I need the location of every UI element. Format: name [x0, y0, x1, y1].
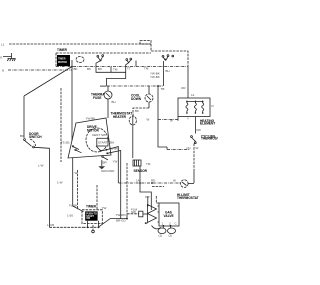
svg-text:TM: TM [113, 68, 118, 72]
svg-text:GROUND: GROUND [101, 169, 115, 173]
hi-limit thermostat TH2 [181, 180, 189, 188]
wire sensor drop [139, 166, 141, 183]
wire stub at S2 [135, 61, 137, 67]
wire cycling dash-dot [167, 149, 190, 151]
wire dashed to valve corner [156, 196, 159, 203]
wire heater to cycling thermostat [194, 117, 196, 134]
wire L1 step into timer [151, 44, 188, 65]
svg-text:BR-GD: BR-GD [116, 219, 127, 223]
wire BK diagonal to door switch [24, 67, 72, 97]
svg-text:Y: Y [187, 117, 189, 121]
ignitor coil triangle lower [148, 214, 157, 223]
timer switch S2 [126, 59, 128, 61]
terminal under start box [92, 225, 94, 230]
wire cool down dashed link [133, 108, 149, 116]
wire timer enclosure bottom bus [56, 66, 188, 68]
node BK [71, 66, 73, 68]
svg-text:THERMOSTAT: THERMOSTAT [201, 137, 218, 141]
cycling thermostat S8 [191, 136, 193, 138]
node TB junction [157, 85, 159, 87]
node bus junction B [151, 182, 153, 184]
gas valve bottom terminals [162, 225, 164, 227]
push to start switch S6 [85, 211, 97, 220]
wire ignitor feed [140, 183, 151, 210]
motor centrifugal circle [86, 128, 108, 152]
timer switch S3 [162, 55, 164, 57]
svg-text:BU: BU [166, 69, 170, 73]
svg-text:CENT SW: CENT SW [92, 133, 106, 137]
svg-text:TB: TB [161, 87, 165, 91]
motor internal junctions [96, 146, 107, 151]
connector plug P1 on L1 [140, 41, 151, 45]
wire S1 staircase [96, 61, 126, 73]
ignitor coil triangle upper [148, 205, 157, 214]
svg-text:BK: BK [135, 109, 139, 113]
svg-text:START: START [98, 141, 108, 145]
wire stub left of fuse branch [100, 85, 106, 87]
wire lower dash-dot bus [119, 182, 181, 184]
svg-text:ELEMENT: ELEMENT [200, 121, 215, 125]
wire S2 drop loop [106, 63, 128, 87]
push to start terminals [88, 221, 99, 228]
svg-text:HEATER: HEATER [113, 115, 127, 119]
wire cycling drop solid [193, 170, 195, 183]
wire flame switch to ignitor [143, 213, 148, 215]
gas valve left terminals [158, 206, 160, 222]
svg-text:W: W [170, 118, 173, 122]
svg-text:5M: 5M [110, 141, 115, 145]
wire bottom dashed run [49, 226, 83, 228]
svg-text:VALVE: VALVE [164, 214, 174, 218]
svg-text:1A: 1A [136, 179, 140, 183]
svg-text:SENSOR: SENSOR [134, 169, 148, 173]
svg-text:BK: BK [98, 67, 102, 71]
wire heater feed drop [187, 65, 189, 98]
node ignitor corner [126, 218, 128, 220]
wire timer motor drop [71, 60, 73, 141]
svg-text:W: W [173, 179, 176, 183]
heater box [178, 98, 210, 117]
svg-text:L2: L2 [191, 93, 195, 97]
wire dashed drop to start box [96, 185, 98, 210]
motor switch S4 [103, 157, 108, 160]
wire through thermostat heater [132, 116, 134, 158]
wire dashed ignitor column [126, 163, 128, 214]
svg-text:YW: YW [102, 206, 107, 210]
wire mid dash-dot bus [107, 85, 164, 87]
flame switch S9 [139, 211, 143, 217]
wire dashed bus stub [152, 186, 164, 188]
svg-text:FL-BK: FL-BK [69, 204, 78, 208]
heater terminals [186, 101, 188, 103]
door switch S5 [24, 139, 26, 141]
timer motor M1 [57, 55, 70, 66]
wire motor right drop A [107, 147, 119, 184]
svg-text:BK: BK [20, 134, 24, 138]
wire N neutral bus [8, 69, 72, 71]
gas valve box [159, 203, 179, 226]
svg-text:MOTOR: MOTOR [58, 61, 67, 64]
thermal fuse F1 [104, 91, 112, 99]
wire cycling branch dashed link [166, 147, 168, 150]
cool down thermostat TH1 [145, 94, 153, 102]
console dashed boundary [60, 88, 62, 162]
motor centrifugal contacts [73, 147, 82, 153]
svg-text:TT: TT [127, 67, 131, 71]
node ignitor bottom [145, 222, 147, 224]
wire motor right drop B [107, 151, 121, 219]
radiant sensor arc [152, 226, 162, 229]
wire dashed motor to start switch [77, 170, 79, 210]
node ignitor top [147, 205, 149, 207]
svg-text:TIMER: TIMER [86, 205, 97, 209]
svg-text:(2): (2) [169, 234, 173, 238]
wire neutral to heater [158, 119, 178, 121]
wire dashed to flame switch [127, 213, 139, 215]
wire cycling drop dashed [193, 144, 195, 171]
timer cam [76, 57, 84, 63]
heater element E1 [186, 101, 188, 114]
node bus junction A [139, 182, 141, 184]
wire L1 supply bus [9, 43, 151, 45]
svg-text:(1): (1) [159, 234, 163, 238]
wire door switch drop [23, 96, 25, 138]
svg-text:W: W [75, 171, 78, 175]
ground under motor [101, 160, 103, 166]
wire valve to coils [163, 226, 170, 228]
push to start dashed box [82, 210, 102, 224]
svg-text:L-OR: L-OR [47, 223, 55, 227]
heater element E2 [194, 101, 196, 114]
ground chassis [3, 53, 16, 59]
svg-text:SWITCH: SWITCH [29, 135, 42, 139]
valve coil 1 [158, 228, 166, 234]
svg-text:1-W: 1-W [57, 181, 63, 185]
thermostat heater R1 [129, 116, 136, 125]
svg-text:BK: BK [87, 67, 91, 71]
wire tap to bus [110, 67, 112, 73]
svg-text:YW: YW [113, 160, 118, 164]
svg-text:TM: TM [146, 162, 151, 166]
svg-text:TS (B): TS (B) [61, 141, 70, 145]
timer switch S1 [97, 55, 99, 57]
svg-text:TIMER: TIMER [57, 48, 68, 52]
heater element E3 [202, 101, 204, 114]
svg-text:W: W [147, 118, 150, 122]
svg-text:DOWN: DOWN [131, 97, 142, 101]
wire S3 drop [163, 61, 165, 86]
broken belt switch S7 [133, 160, 141, 166]
wire diagonal to ignitor run [99, 219, 127, 227]
svg-text:L1: L1 [1, 43, 5, 47]
valve coil 2 [168, 228, 176, 234]
timer dashed enclosure [56, 53, 151, 67]
wire hi-limit to cycling drop [188, 183, 194, 185]
svg-text:TM: TM [144, 67, 149, 71]
svg-text:1-50: 1-50 [67, 214, 73, 218]
svg-text:BU: BU [112, 100, 116, 104]
svg-text:YW-BK: YW-BK [86, 117, 96, 121]
wire TB to cycling branch [158, 86, 167, 147]
wire motor to start switch [73, 158, 84, 212]
drive motor housing [68, 118, 111, 158]
start winding box [97, 138, 108, 146]
svg-text:FUSE: FUSE [93, 96, 102, 100]
heater internal bus and stub [178, 102, 203, 121]
wire door switch to bottom corner [34, 147, 49, 227]
svg-text:L-W: L-W [38, 164, 44, 168]
svg-text:W: W [196, 146, 199, 150]
svg-text:BK: BK [74, 67, 78, 71]
wire ignitor feed stub [147, 196, 149, 206]
svg-text:YW-BK: YW-BK [150, 75, 160, 79]
svg-text:THERMOSTAT: THERMOSTAT [177, 196, 199, 200]
svg-text:N: N [2, 69, 4, 73]
